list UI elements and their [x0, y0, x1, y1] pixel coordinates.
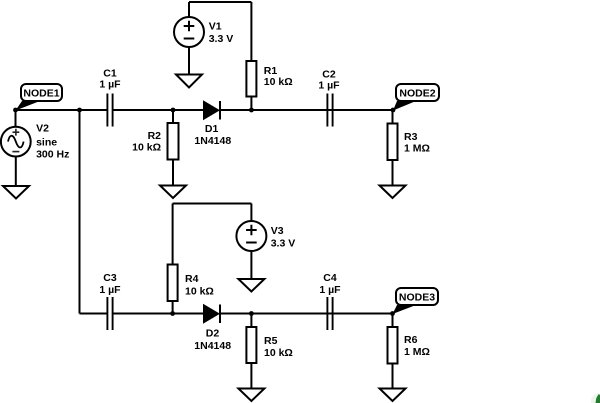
- V2 sine wave: [8, 136, 24, 148]
- junction dot R2 top: [171, 108, 176, 113]
- node label NODE1: [16, 84, 63, 111]
- svg-text:NODE1: NODE1: [23, 88, 59, 100]
- svg-text:1 MΩ: 1 MΩ: [404, 346, 430, 358]
- ground below V2: [3, 186, 29, 199]
- svg-text:1 µF: 1 µF: [99, 79, 121, 91]
- wire R4 bottom lead: [172, 301, 174, 314]
- wire V2 bottom lead: [15, 157, 17, 187]
- svg-text:R6: R6: [404, 334, 418, 346]
- watermark green logo fragment bottom-right corner: [591, 393, 600, 403]
- node label NODE3: [393, 288, 439, 314]
- resistor R6 body: [388, 327, 398, 364]
- svg-text:3.3 V: 3.3 V: [271, 237, 296, 249]
- wire V1 loop horizontal: [189, 1, 251, 3]
- junction dot NODE3: [390, 311, 395, 316]
- wire R2 top lead: [172, 110, 174, 123]
- V2 small minus: [12, 151, 19, 153]
- wire top main segment 2 (C1 to D1): [114, 109, 205, 111]
- ground below R5: [238, 389, 264, 402]
- diode D1 triangle: [204, 102, 218, 119]
- svg-text:10 kΩ: 10 kΩ: [264, 347, 293, 359]
- capacitor C2 plates: [327, 94, 332, 127]
- wire bottom rail segment 1: [80, 313, 107, 315]
- svg-text:1 MΩ: 1 MΩ: [404, 143, 430, 155]
- svg-text:1 µF: 1 µF: [318, 80, 340, 92]
- wire R5 bottom lead: [250, 363, 252, 389]
- svg-text:1 µF: 1 µF: [319, 284, 341, 296]
- svg-text:R1: R1: [264, 65, 278, 77]
- resistor R2 body: [168, 123, 179, 160]
- wire V1 bottom lead: [188, 47, 190, 75]
- svg-text:3.3 V: 3.3 V: [209, 33, 234, 45]
- resistor R1 body: [246, 61, 256, 97]
- svg-text:sine: sine: [36, 137, 57, 149]
- ground below R6: [380, 389, 406, 402]
- wire top main segment 1 (NODE1 to C1): [16, 109, 107, 111]
- wire R6 top lead: [392, 314, 394, 328]
- svg-text:R3: R3: [404, 131, 418, 143]
- wire V1 top lead: [188, 2, 190, 17]
- svg-text:R2: R2: [148, 130, 162, 142]
- wire V3 bottom lead: [250, 251, 252, 279]
- svg-text:D2: D2: [206, 328, 220, 340]
- wire R3 bottom lead: [392, 160, 394, 186]
- svg-text:10 kΩ: 10 kΩ: [132, 142, 161, 154]
- svg-text:V2: V2: [36, 123, 49, 135]
- svg-text:1N4148: 1N4148: [194, 135, 231, 147]
- junction dot R5 top: [249, 311, 254, 316]
- svg-text:10 kΩ: 10 kΩ: [264, 76, 293, 88]
- junction dot branch on top rail: [77, 108, 82, 113]
- wire R5 top lead: [250, 314, 252, 328]
- diode D2 triangle: [204, 306, 218, 323]
- capacitor C3 plates: [107, 297, 112, 330]
- V3 minus sign: [246, 242, 257, 244]
- svg-text:C4: C4: [323, 272, 337, 284]
- wire R2 bottom lead: [172, 160, 174, 186]
- voltage source V1 circle: [174, 17, 204, 47]
- wire V2 top lead: [15, 110, 17, 127]
- ground below V3: [238, 279, 264, 292]
- svg-text:R4: R4: [185, 273, 199, 285]
- wire R6 bottom lead: [392, 364, 394, 389]
- wire R4 top lead: [172, 204, 174, 265]
- svg-text:C3: C3: [103, 272, 117, 284]
- node label NODE2: [393, 84, 439, 111]
- ground below V1: [176, 75, 202, 88]
- wire R1 bottom lead: [250, 97, 252, 111]
- resistor R3 body: [388, 124, 398, 161]
- V2 small plus: [13, 129, 20, 136]
- wire V1 loop vertical to R1: [250, 2, 252, 61]
- svg-text:NODE2: NODE2: [399, 88, 435, 100]
- svg-text:V1: V1: [209, 21, 222, 33]
- resistor R4 body: [168, 265, 178, 302]
- V3 plus sign: [246, 225, 257, 236]
- junction dot NODE1: [13, 108, 18, 113]
- ground below R3: [380, 186, 406, 199]
- voltage source V2 (sine) circle: [1, 127, 31, 157]
- svg-text:V3: V3: [271, 225, 284, 237]
- wire vertical branch NODE1 to bottom rail: [79, 110, 81, 314]
- V1 plus sign: [184, 21, 195, 32]
- voltage source V3 circle: [236, 221, 266, 251]
- wire V3 top lead: [250, 204, 252, 222]
- diode D2 cathode bar: [219, 305, 221, 324]
- ground below R2: [160, 186, 186, 199]
- svg-text:10 kΩ: 10 kΩ: [185, 286, 214, 298]
- capacitor C4 plates: [327, 297, 332, 330]
- svg-text:C2: C2: [322, 69, 336, 81]
- diode D1 cathode bar: [219, 101, 221, 120]
- svg-text:1 µF: 1 µF: [99, 284, 121, 296]
- svg-text:NODE3: NODE3: [399, 292, 435, 304]
- svg-text:C1: C1: [103, 67, 117, 79]
- svg-text:300 Hz: 300 Hz: [36, 149, 69, 161]
- wire R3 top lead: [392, 110, 394, 124]
- svg-text:D1: D1: [205, 123, 219, 135]
- junction dot NODE2: [391, 108, 396, 113]
- V1 minus sign: [184, 38, 195, 40]
- junction dot R1 bottom: [249, 108, 254, 113]
- wire bottom rail segment 2 (C3 to D2): [114, 313, 205, 315]
- svg-text:1N4148: 1N4148: [194, 340, 231, 352]
- capacitor C1 plates: [107, 94, 112, 127]
- svg-text:R5: R5: [264, 335, 278, 347]
- wire V3 loop horizontal: [173, 203, 252, 205]
- wire top main segment 3 (D1 cathode to NODE2): [221, 109, 393, 111]
- wire bottom rail segment 3 (D2 to NODE3): [221, 313, 393, 315]
- resistor R5 body: [246, 327, 256, 363]
- junction dot R4 bottom: [170, 311, 175, 316]
